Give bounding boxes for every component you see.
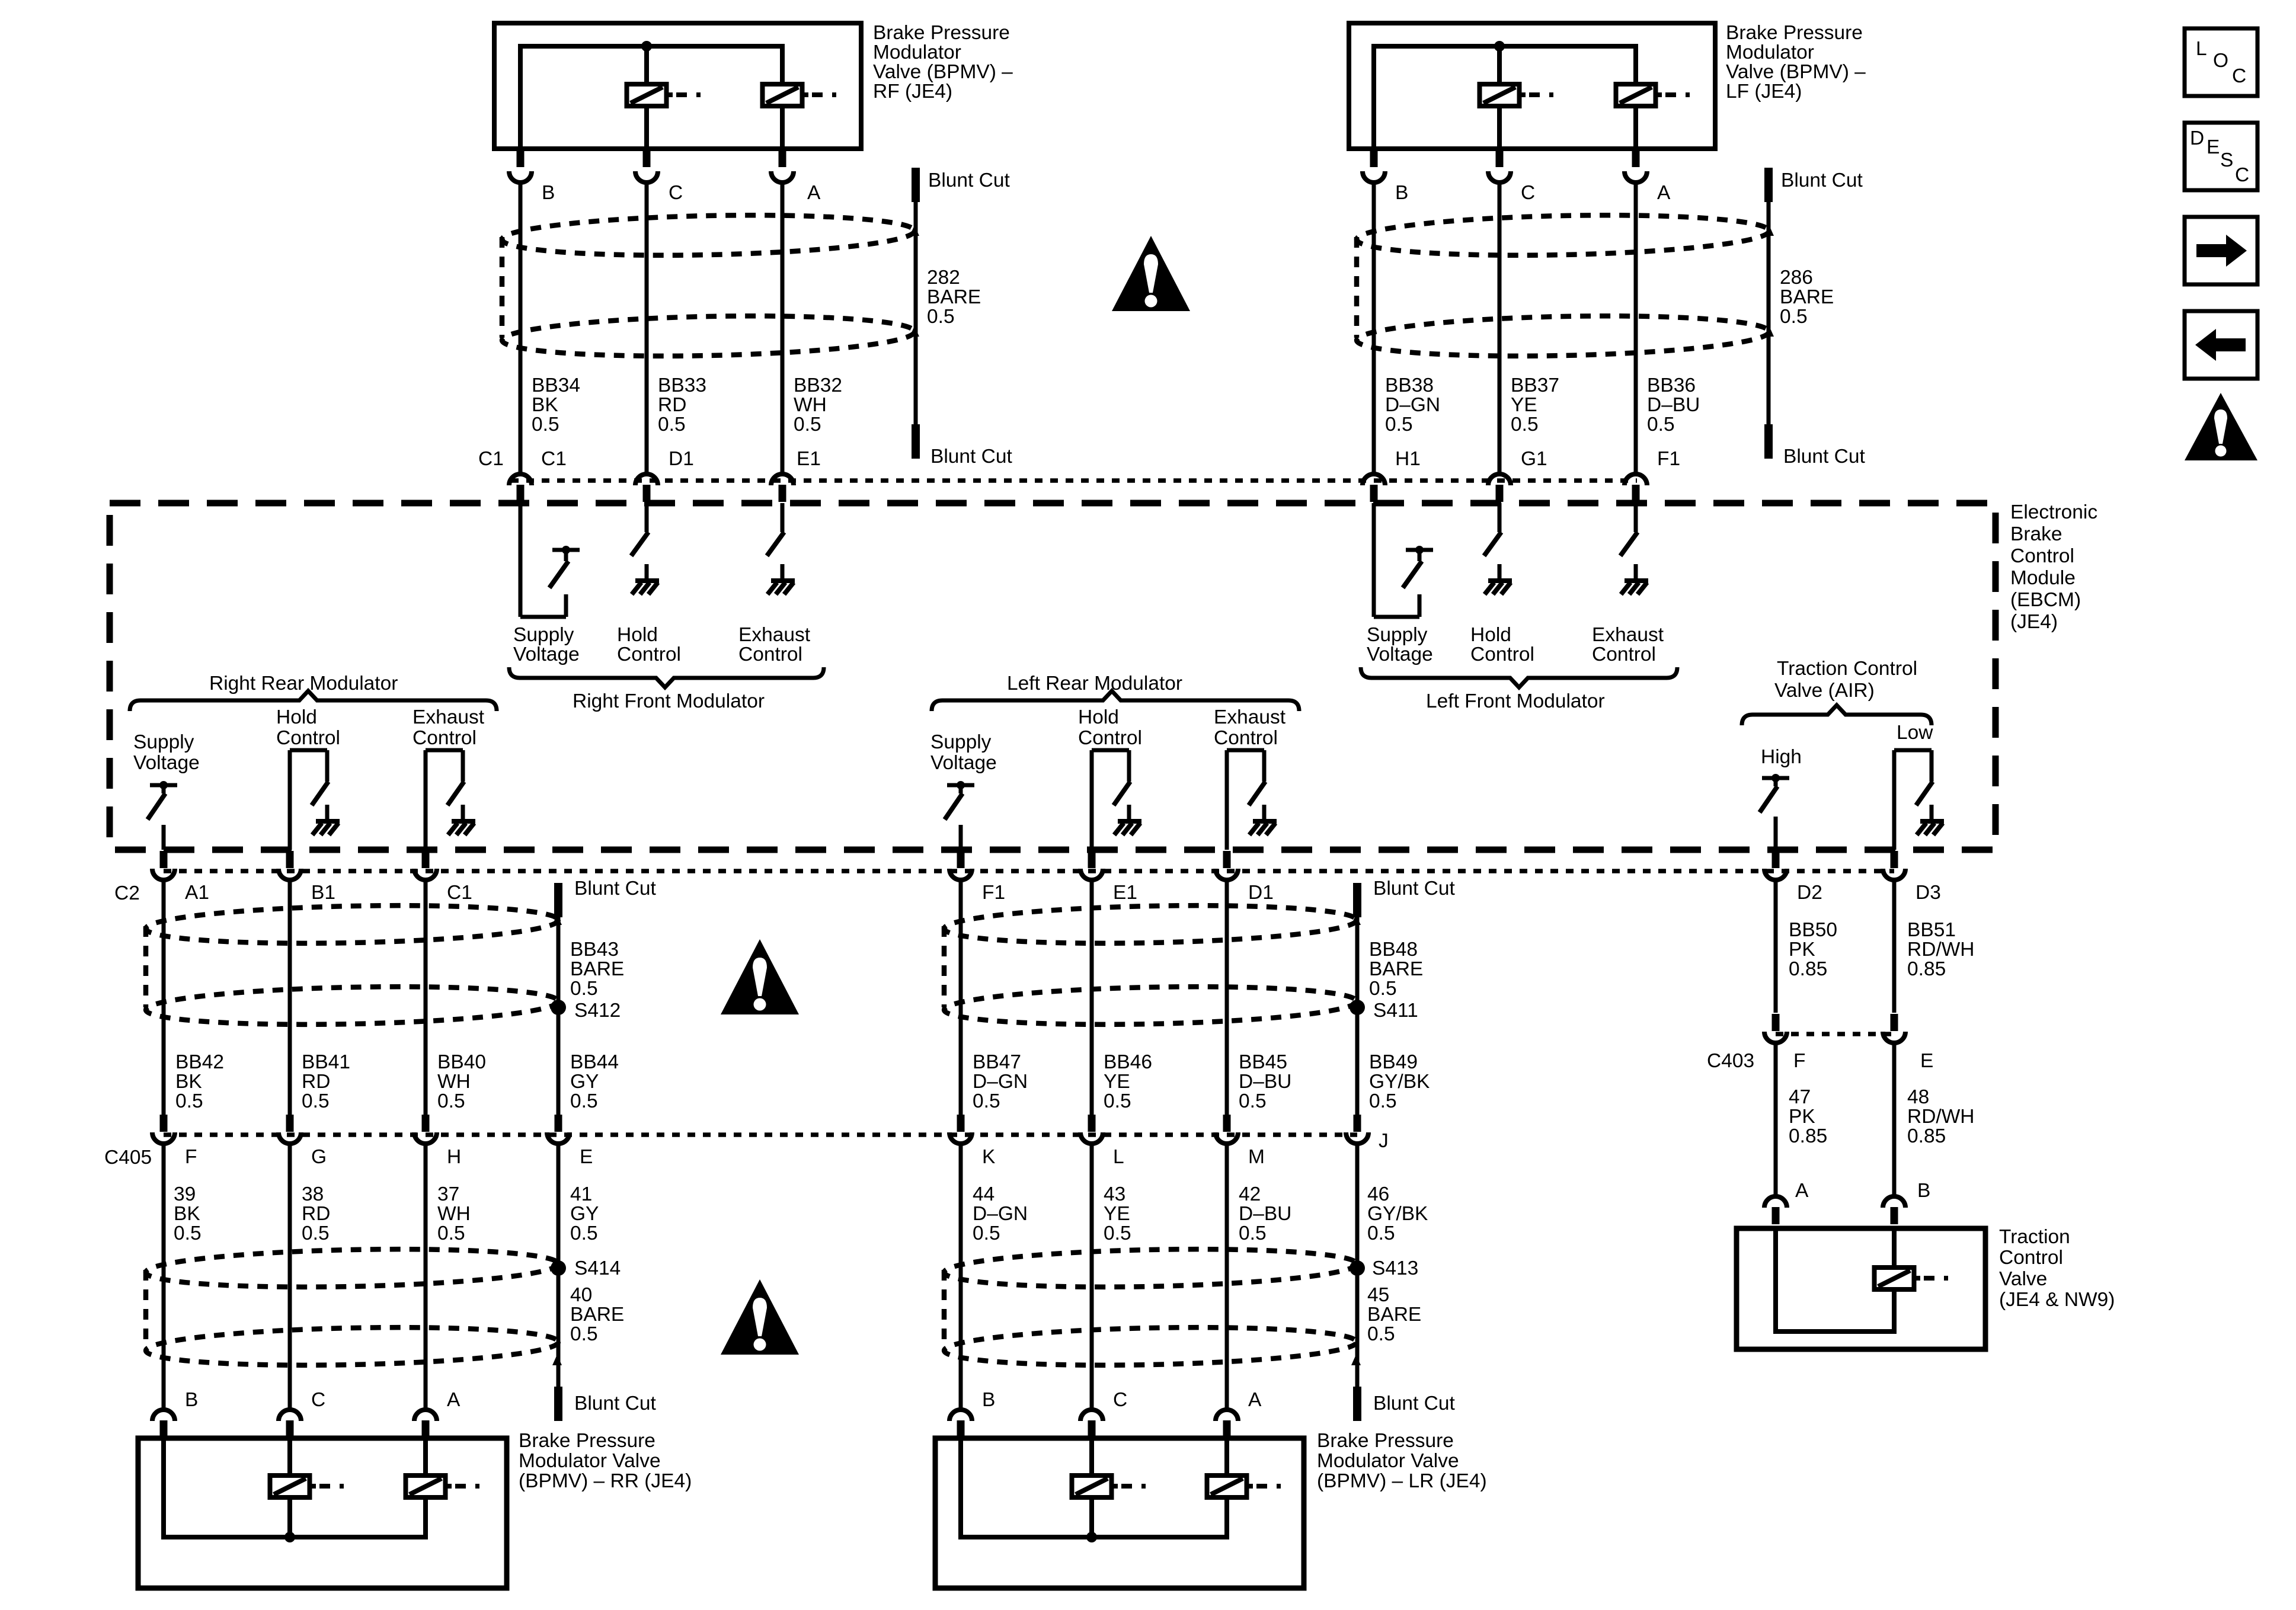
svg-text:J: J [1379,1130,1389,1152]
connector cup C1 pin H1 [1363,474,1385,485]
svg-text:0.5: 0.5 [437,1222,465,1244]
pin stub E C405 [555,1115,562,1132]
connector cup pin C BPMV-LF [1488,171,1511,183]
connector cup pin F C405 [152,1132,175,1144]
LOC icon box [2185,28,2257,96]
svg-text:YE: YE [1511,394,1537,416]
svg-text:C2: C2 [114,882,140,904]
svg-text:RD/WH: RD/WH [1907,1106,1975,1128]
connector cup pin E C405 [547,1132,570,1144]
svg-text:0.5: 0.5 [927,306,955,328]
TCV low switch [1894,750,1944,850]
svg-text:S413: S413 [1372,1257,1418,1279]
Traction valve label [1999,1226,2115,1311]
shield ellipse LR lower2 [944,1324,1357,1369]
shield side link LR lower [942,1270,947,1348]
shield arrow RR lower [552,1355,562,1365]
shield side link RF [500,237,505,338]
svg-text:42: 42 [1239,1183,1261,1205]
svg-text:46: 46 [1367,1183,1389,1205]
svg-text:0.5: 0.5 [1780,306,1808,328]
junction dot BPMV-LR bus [1086,1532,1097,1542]
svg-text:0.5: 0.5 [174,1222,202,1244]
svg-text:GY/BK: GY/BK [1369,1071,1430,1093]
wire label 44 D-GN 0.5 [973,1183,1028,1244]
svg-text:0.5: 0.5 [1647,414,1675,436]
pin stub F1b [957,851,965,868]
TCV high wire to connector D2 [1774,817,1778,850]
left arrow icon box [2185,311,2257,379]
RF hold control label [617,624,681,665]
svg-text:BB44: BB44 [570,1051,619,1073]
wire label BB51 RD/WH 0.85 [1907,919,1975,980]
svg-text:E: E [1920,1050,1933,1072]
shield ellipse LF upper [1356,212,1769,260]
svg-text:Blunt Cut: Blunt Cut [1373,878,1455,900]
svg-text:0.5: 0.5 [1104,1222,1131,1244]
svg-text:BB45: BB45 [1239,1051,1287,1073]
wire 44 D-GN lower [959,1145,963,1408]
connector cup pin D2 [1764,869,1787,880]
connector cup pin F C403 [1764,1032,1787,1043]
wire bus inside BPMV-RR [164,1438,426,1537]
wire label BB38 D-GN 0.5 [1385,375,1440,436]
LF exhaust control switch [1620,503,1648,594]
LR hold control label [1078,706,1142,749]
svg-text:BB48: BB48 [1369,939,1418,961]
svg-text:Voltage: Voltage [930,752,997,774]
svg-text:Brake: Brake [2010,523,2062,545]
wire bus inside BPMV-LR [961,1438,1227,1537]
wire 47 PK [1774,1045,1778,1195]
svg-text:D–GN: D–GN [973,1071,1028,1093]
svg-text:0.5: 0.5 [570,978,598,1000]
drain wire 45 BARE lower [1355,1145,1360,1387]
svg-text:43: 43 [1104,1183,1125,1205]
svg-text:High: High [1761,746,1802,768]
Traction Control Valve (AIR) title [1774,658,1917,702]
wire coil legs BPMV-LF [1499,106,1636,149]
pin stub B RR [160,1420,168,1438]
pin stub E C403 [1891,1014,1898,1031]
drain label 41 GY 0.5 [570,1183,599,1244]
svg-text:Left Front Modulator: Left Front Modulator [1426,690,1605,712]
svg-text:Right Rear Modulator: Right Rear Modulator [209,673,398,694]
svg-text:C: C [2235,164,2249,186]
svg-text:D1: D1 [669,448,694,470]
connector cup C1 pin C1 [509,474,532,485]
pin stub B TCV [1891,1207,1898,1224]
wire label BB47 D-GN 0.5 [973,1051,1028,1112]
RF exhaust control switch [767,503,795,594]
wire 42 D-BU from D1 [1225,882,1229,1115]
connector cup C1 pin G1 [1488,474,1511,485]
drain wire 282 BARE blunt cut top bar [912,168,920,202]
warning triangle icon [2185,393,2257,460]
svg-text:40: 40 [570,1284,592,1306]
svg-text:G: G [311,1146,327,1168]
svg-text:G1: G1 [1521,448,1547,470]
svg-text:BB43: BB43 [570,939,619,961]
svg-text:D: D [2190,127,2204,149]
shield ellipse RR upper1 [145,902,558,948]
svg-text:Supply: Supply [930,731,992,753]
drain label BB49 GY/BK 0.5 [1369,1051,1430,1112]
wire label 38 RD 0.5 [302,1183,330,1244]
connector cup pin C RR [279,1410,301,1421]
svg-text:Brake Pressure: Brake Pressure [1317,1430,1454,1452]
right arrow icon box [2185,217,2257,284]
pin stub H C405 [422,1115,430,1132]
connector cup pin A LR [1216,1410,1238,1421]
connector cup pin E C403 [1883,1032,1905,1043]
wire BB38 D-GN [1372,184,1376,472]
svg-text:(EBCM): (EBCM) [2010,589,2081,611]
svg-text:Control: Control [1078,727,1142,749]
svg-text:Supply: Supply [513,624,574,646]
svg-text:0.5: 0.5 [532,414,559,436]
RR exhaust control label [412,706,485,749]
shield arrow LR upper [1351,914,1361,925]
wire 39 BK from A1 [162,882,166,1115]
svg-text:48: 48 [1907,1086,1929,1108]
svg-text:E1: E1 [1113,882,1137,904]
svg-text:D–BU: D–BU [1647,394,1700,416]
connector cup pin H C405 [414,1132,437,1144]
shield side link LR upper [942,926,947,1007]
connector cup pin B1 [279,869,301,880]
svg-text:C1: C1 [541,448,567,470]
connector cup C1 pin D1 [635,474,658,485]
wire BB33 RD [645,184,649,472]
shield arrow RF lower [910,326,919,337]
svg-text:Blunt Cut: Blunt Cut [930,446,1012,468]
drain wire 286 BARE [1767,202,1771,427]
wire label 37 WH 0.5 [437,1183,471,1244]
svg-text:F: F [1793,1050,1805,1072]
connector cup pin G C405 [279,1132,301,1144]
svg-text:0.85: 0.85 [1907,958,1946,980]
svg-text:0.5: 0.5 [570,1323,598,1345]
svg-text:S: S [2220,149,2233,171]
svg-text:Control: Control [2010,545,2074,567]
svg-text:C: C [1113,1389,1127,1411]
svg-text:BB37: BB37 [1511,375,1559,396]
svg-text:Modulator Valve: Modulator Valve [1317,1450,1459,1472]
svg-text:282: 282 [927,267,960,289]
BPMV-RR label [519,1430,692,1492]
drain BB43 blunt cut bar [554,883,562,917]
splice S414 [551,1260,566,1276]
LF supply voltage switch [1374,503,1433,617]
svg-text:PK: PK [1789,1106,1815,1128]
BPMV-RF box [494,23,861,149]
svg-text:BARE: BARE [927,286,981,308]
svg-text:BB50: BB50 [1789,919,1837,941]
svg-text:0.5: 0.5 [1239,1222,1267,1244]
svg-text:D1: D1 [1248,882,1274,904]
svg-text:M: M [1248,1146,1265,1168]
svg-text:38: 38 [302,1183,324,1205]
shield ellipse RF upper [501,212,914,260]
wire label BB50 PK 0.85 [1789,919,1837,980]
svg-text:0.5: 0.5 [1385,414,1413,436]
pin stub A RR [422,1420,430,1438]
svg-text:0.5: 0.5 [1369,978,1397,1000]
connector C1 row dotted line [511,478,1637,483]
Right Rear Modulator brace [130,691,497,711]
svg-text:A: A [1657,182,1671,204]
drain wire BB48 BARE [1355,917,1360,1115]
RR exhaust control switch [426,750,475,850]
svg-text:O: O [2213,50,2228,72]
drain label BB43 BARE 0.5 [570,939,624,1000]
DESC icon box [2185,123,2257,190]
svg-text:0.5: 0.5 [1511,414,1539,436]
svg-text:Control: Control [617,644,681,665]
svg-text:45: 45 [1367,1284,1389,1306]
svg-text:GY: GY [570,1203,599,1225]
svg-text:0.5: 0.5 [658,414,686,436]
Traction valve box [1737,1228,1985,1349]
svg-text:0.5: 0.5 [1104,1090,1131,1112]
svg-text:0.5: 0.5 [1369,1090,1397,1112]
svg-text:S414: S414 [574,1257,621,1279]
svg-text:(JE4): (JE4) [2010,611,2058,633]
wire BB32 WH [781,184,785,472]
wire 37 WH lower [424,1145,428,1408]
svg-text:44: 44 [973,1183,994,1205]
shield arrow LF lower [1764,326,1774,337]
svg-text:BK: BK [532,394,558,416]
connector C403 dotted line [1776,1032,1894,1036]
drain label 40 BARE 0.5 [570,1284,624,1345]
svg-text:0.5: 0.5 [570,1222,598,1244]
pin stub K C405 [957,1115,965,1132]
pin stub F C405 [160,1115,168,1132]
drain label 282 BARE 0.5 [927,267,981,328]
wire label BB33 RD 0.5 [658,375,706,436]
svg-text:YE: YE [1104,1071,1130,1093]
wire coil legs BPMV-RF [647,106,782,149]
svg-text:C1: C1 [478,448,504,470]
svg-text:E: E [580,1146,593,1168]
connector cup pin J C405 [1346,1132,1368,1144]
wire loop inside traction valve [1776,1228,1894,1331]
shield ellipse LR upper1 [944,902,1357,948]
svg-text:C: C [669,182,683,204]
connector cup pin A RR [414,1410,437,1421]
RR hold control switch [290,750,340,850]
pin stub L C405 [1088,1115,1096,1132]
svg-text:(BPMV) – RR (JE4): (BPMV) – RR (JE4) [519,1470,692,1492]
svg-text:K: K [982,1146,995,1168]
svg-text:41: 41 [570,1183,592,1205]
pin stub M C405 [1223,1115,1231,1132]
svg-text:Blunt Cut: Blunt Cut [1781,169,1863,191]
BPMV-LR box [935,1438,1304,1588]
drain label 286 BARE 0.5 [1780,267,1834,328]
Left Front Modulator brace [1361,667,1677,687]
connector C2 row dotted line [164,869,1894,873]
pin stub D1b [1223,851,1231,868]
warning triangle top center [1112,236,1190,311]
pin stub E1b [1088,851,1096,868]
wire bus inside BPMV-LF [1374,46,1636,149]
svg-text:Hold: Hold [276,706,317,728]
connector cup pin D3 [1883,869,1905,880]
pin stub F1 [1632,485,1640,502]
svg-text:0.5: 0.5 [1239,1090,1267,1112]
wire label 43 YE 0.5 [1104,1183,1131,1244]
svg-text:YE: YE [1104,1203,1130,1225]
LF exhaust control label [1592,624,1664,665]
wire label BB41 RD 0.5 [302,1051,350,1112]
warning triangle middle left [721,939,799,1014]
shield ellipse RR lower1 [145,1246,558,1291]
wire 48 RD/WH [1892,1045,1897,1195]
shield ellipse LR lower1 [944,1246,1357,1291]
Left Rear Modulator brace [932,691,1299,711]
svg-text:Control: Control [1592,644,1656,665]
svg-text:0.5: 0.5 [570,1090,598,1112]
RF supply voltage switch [520,503,580,617]
svg-text:WH: WH [437,1071,471,1093]
drain wire 282 BARE [914,202,918,427]
svg-text:S412: S412 [574,1000,621,1022]
svg-text:BB42: BB42 [175,1051,224,1073]
LF supply voltage label [1367,624,1433,665]
svg-text:BB32: BB32 [794,375,842,396]
svg-text:0.5: 0.5 [1367,1222,1395,1244]
svg-text:Exhaust: Exhaust [738,624,811,646]
RR supply voltage label [133,731,200,774]
pin stub H1 [1370,485,1378,502]
coil RF hold [627,84,709,106]
svg-text:D3: D3 [1916,882,1941,904]
pin stub B of BPMV-LF [1370,150,1378,167]
shield side link LF [1354,237,1360,338]
svg-text:A: A [1795,1180,1809,1202]
wire label BB37 YE 0.5 [1511,375,1559,436]
svg-text:Exhaust: Exhaust [1214,706,1286,728]
svg-text:Valve (BPMV) –: Valve (BPMV) – [873,61,1013,83]
svg-text:Module: Module [2010,567,2076,589]
connector cup pin B LR [949,1410,972,1421]
svg-text:F1: F1 [1657,448,1680,470]
drain wire 282 blunt cut bottom bar [912,424,920,459]
svg-text:39: 39 [174,1183,196,1205]
shield side link RR upper [143,926,149,1007]
svg-text:47: 47 [1789,1086,1811,1108]
junction dot BPMV-RR bus [284,1532,295,1542]
LF hold control switch [1484,503,1512,594]
svg-text:Brake Pressure: Brake Pressure [519,1430,655,1452]
pin stub E1 [779,485,786,502]
svg-text:D–BU: D–BU [1239,1203,1291,1225]
wire 39 BK lower [162,1145,166,1408]
connector cup pin B RR [152,1410,175,1421]
svg-text:(BPMV) – LR (JE4): (BPMV) – LR (JE4) [1317,1470,1487,1492]
svg-text:0.5: 0.5 [175,1090,203,1112]
pin stub G1 [1496,485,1504,502]
RF supply voltage label [513,624,580,665]
connector cup pin F1 [949,869,972,880]
pin stub J C405 [1354,1115,1361,1132]
connector cup pin L C405 [1080,1132,1103,1144]
svg-text:0.5: 0.5 [794,414,821,436]
pin stub D1 [643,485,651,502]
svg-text:(JE4 & NW9): (JE4 & NW9) [1999,1289,2115,1311]
svg-text:BARE: BARE [570,1304,624,1326]
svg-text:BB51: BB51 [1907,919,1956,941]
wire 44 D-GN from F1 [959,882,963,1115]
pin stub C of BPMV-RF [643,150,651,167]
connector cup pin D1 [1216,869,1238,880]
wire label 39 BK 0.5 [174,1183,202,1244]
LR exhaust control switch [1227,750,1277,850]
svg-text:RD: RD [302,1071,330,1093]
Traction Control Valve brace [1742,705,1932,725]
wire label 42 D-BU 0.5 [1239,1183,1291,1244]
wire BB51 RD/WH [1892,882,1897,1013]
svg-text:0.5: 0.5 [1367,1323,1395,1345]
svg-text:Blunt Cut: Blunt Cut [928,169,1010,191]
connector C405 dotted line [164,1132,1357,1137]
drain wire 40 BARE lower [557,1145,561,1387]
svg-text:0.5: 0.5 [302,1090,330,1112]
svg-text:BB36: BB36 [1647,375,1696,396]
svg-text:Hold: Hold [1470,624,1511,646]
svg-text:Voltage: Voltage [1367,644,1433,665]
svg-text:BB33: BB33 [658,375,706,396]
junction dot BPMV-RF bus [641,41,652,52]
svg-text:0.5: 0.5 [302,1222,330,1244]
svg-text:BARE: BARE [1367,1304,1421,1326]
wire label BB36 D-BU 0.5 [1647,375,1700,436]
svg-text:L: L [1113,1146,1124,1168]
shield ellipse LF lower [1356,312,1769,360]
svg-text:BARE: BARE [570,958,624,980]
svg-text:A: A [1248,1389,1262,1411]
svg-text:Low: Low [1897,722,1933,744]
RF hold control switch [631,503,659,594]
svg-text:C: C [311,1389,325,1411]
svg-text:Supply: Supply [1367,624,1428,646]
svg-text:B: B [185,1389,198,1411]
svg-text:BK: BK [175,1071,202,1093]
pin stub A of BPMV-LF [1632,150,1640,167]
svg-text:WH: WH [794,394,827,416]
svg-text:Control: Control [1999,1247,2063,1269]
shield arrow RF upper [910,225,919,236]
svg-text:RD: RD [658,394,686,416]
drain wire 286 blunt cut bottom bar [1764,424,1773,459]
svg-text:0.5: 0.5 [973,1090,1000,1112]
warning triangle bottom left [721,1279,799,1355]
shield ellipse RF lower [501,312,914,360]
shield ellipse RR lower2 [145,1324,558,1369]
shield ellipse RR upper2 [145,983,558,1029]
drain 40 blunt cut bar [554,1387,562,1421]
svg-text:D2: D2 [1797,882,1822,904]
svg-text:37: 37 [437,1183,459,1205]
wire label BB40 WH 0.5 [437,1051,486,1112]
pin stub F C403 [1772,1014,1780,1031]
svg-text:Electronic: Electronic [2010,501,2097,523]
svg-text:Hold: Hold [617,624,658,646]
BPMV-LF box [1349,23,1715,149]
